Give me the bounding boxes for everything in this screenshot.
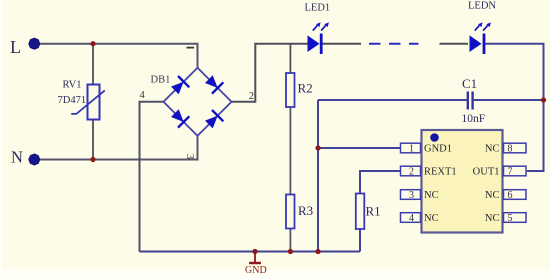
svg-text:R2: R2 bbox=[298, 81, 313, 96]
svg-text:C1: C1 bbox=[462, 76, 477, 91]
wire: C1 right wire to right rail bbox=[474, 99, 544, 101]
resistor R3 bbox=[286, 195, 313, 229]
pin 2 box bbox=[401, 166, 421, 176]
wire: R3 bottom stub to ground rail bbox=[289, 229, 291, 252]
junction at R3 on rail bbox=[288, 249, 293, 254]
svg-text:N: N bbox=[11, 148, 23, 167]
junction at node drop on rail bbox=[315, 249, 320, 254]
pin 3 box bbox=[401, 190, 421, 200]
svg-text:3: 3 bbox=[409, 190, 414, 201]
terminal N bbox=[11, 148, 40, 167]
junction at pin1 node bbox=[315, 145, 320, 150]
bridge minus mark bbox=[187, 47, 195, 49]
wire: bridge pin 4 to left drop down to ground rail bbox=[140, 102, 164, 252]
LED1 bbox=[305, 3, 331, 55]
diode D-topleft of DB1 bbox=[171, 76, 189, 94]
pin 4 box bbox=[401, 213, 421, 223]
wire: RV1 top stub bbox=[92, 44, 94, 85]
svg-text:2: 2 bbox=[409, 167, 414, 178]
pin 6 box bbox=[504, 190, 527, 200]
diode D-bottomleft of DB1 bbox=[171, 109, 189, 127]
ground symbol GND bbox=[245, 252, 267, 277]
svg-text:6: 6 bbox=[508, 190, 513, 201]
svg-text:R1: R1 bbox=[366, 204, 381, 219]
white margin bottom bbox=[0, 270, 550, 279]
junction at L/RV1 bbox=[90, 41, 95, 46]
wire: bridge pin 2 up and right to LED1 bbox=[232, 44, 308, 102]
pin 7 box bbox=[504, 166, 527, 176]
bridge rectifier DB1 diamond bbox=[151, 68, 232, 136]
terminal L bbox=[10, 37, 40, 57]
svg-text:4: 4 bbox=[409, 213, 414, 224]
resistor R2 bbox=[286, 73, 313, 107]
IC pin-1 marker dot bbox=[430, 133, 439, 142]
svg-text:5: 5 bbox=[508, 213, 513, 224]
white margin left bbox=[0, 0, 2, 279]
svg-text:NC: NC bbox=[485, 213, 500, 224]
wire: R2 branch top stub bbox=[289, 44, 291, 73]
wire: RV1 bottom stub bbox=[92, 120, 94, 160]
pin 5 box bbox=[504, 213, 527, 223]
svg-text:2: 2 bbox=[249, 91, 254, 102]
wire: pin 2 REXT1 wire down to R1 bbox=[360, 171, 401, 194]
wire: N rail from terminal to bridge pin 3 bbox=[40, 136, 198, 160]
wire: L rail from terminal to bridge top bbox=[40, 44, 198, 68]
diode D-bottomright of DB1 bbox=[205, 110, 223, 128]
svg-text:DB1: DB1 bbox=[151, 75, 171, 86]
svg-text:NC: NC bbox=[424, 190, 439, 201]
svg-text:LED1: LED1 bbox=[305, 3, 331, 14]
wire: ground rail bbox=[140, 251, 361, 253]
pin 8 box bbox=[504, 143, 527, 153]
svg-text:1: 1 bbox=[409, 144, 414, 155]
pin 1 box bbox=[401, 143, 421, 153]
junction at N/RV1 bbox=[90, 157, 95, 162]
svg-text:4: 4 bbox=[140, 90, 146, 101]
LEDN bbox=[468, 1, 496, 55]
svg-text:8: 8 bbox=[508, 144, 513, 155]
wire: node drop from C1 left corner down to ground rail bbox=[317, 100, 319, 252]
svg-text:OUT1: OUT1 bbox=[473, 167, 500, 178]
svg-text:GND1: GND1 bbox=[424, 144, 452, 155]
svg-text:7D471: 7D471 bbox=[58, 95, 87, 106]
svg-text:10nF: 10nF bbox=[462, 113, 486, 125]
varistor RV1 bbox=[58, 80, 105, 120]
wire: LEDN cathode to right rail down to pin 7 bbox=[486, 44, 544, 171]
junction at GND on rail bbox=[252, 249, 257, 254]
wire: solid segment to LEDN anode bbox=[440, 43, 469, 45]
wire: C1 left wire bbox=[318, 99, 467, 101]
junction at C1 right / right rail bbox=[541, 97, 546, 102]
svg-text:NC: NC bbox=[424, 213, 439, 224]
svg-text:REXT1: REXT1 bbox=[424, 167, 457, 178]
svg-text:NC: NC bbox=[485, 144, 500, 155]
IC U1 body bbox=[422, 130, 503, 233]
svg-text:RV1: RV1 bbox=[63, 80, 82, 91]
capacitor C1 bbox=[462, 76, 486, 125]
svg-text:LEDN: LEDN bbox=[468, 1, 496, 12]
svg-text:NC: NC bbox=[485, 190, 500, 201]
svg-text:R3: R3 bbox=[298, 203, 313, 218]
wire: R1 bottom stub bbox=[359, 229, 361, 252]
svg-text:7: 7 bbox=[508, 167, 513, 178]
resistor R1 bbox=[356, 194, 381, 230]
svg-text:GND: GND bbox=[245, 265, 267, 276]
wire: R2 to R3 vertical link bbox=[289, 107, 291, 195]
svg-text:L: L bbox=[10, 37, 21, 57]
wire: dashed LED string segment bbox=[369, 43, 419, 45]
svg-text:3: 3 bbox=[184, 154, 196, 160]
wire: pin 1 GND1 wire bbox=[318, 147, 401, 149]
diode D-topright of DB1 bbox=[205, 75, 223, 93]
wire: LED1 cathode solid segment bbox=[323, 43, 362, 45]
